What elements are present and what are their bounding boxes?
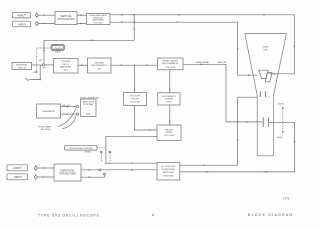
horizontal deflection plate right	[267, 118, 269, 127]
wire holdoff circuit to miller runup	[135, 106, 158, 131]
svg-text:EXT: EXT	[39, 60, 44, 62]
callout curve to upper cal terminal	[58, 108, 76, 126]
wire calibrator upper output	[61, 106, 77, 108]
svg-text:SW25: SW25	[55, 52, 61, 54]
svg-text:MULTIVIBRATOR: MULTIVIBRATOR	[162, 62, 178, 65]
node: internal trigger pickoff on lower line	[133, 21, 135, 23]
wire vertical amplifier upper output to right CRT plate	[110, 14, 295, 75]
block: horizontal display positions	[81, 99, 97, 117]
horizontal display rounded label box	[65, 145, 98, 153]
mechanical linkage dashed to display switch wipers	[97, 147, 105, 149]
label CRT	[262, 47, 269, 52]
horizontal deflection plate left	[262, 118, 264, 127]
trigger source rounded label box	[51, 45, 65, 54]
svg-text:+INPUT: +INPUT	[13, 166, 23, 170]
wire +input to vertical attenuators	[38, 14, 55, 16]
svg-text:DIODES: DIODES	[165, 99, 174, 101]
block: miller runup circuit	[157, 125, 181, 141]
wire trigger multivibrator to sweep gating multivibrator	[111, 64, 158, 66]
svg-text:V135 V145: V135 V145	[165, 67, 176, 69]
wire horizontal amp upper output to left horizontal plate	[180, 97, 262, 166]
+INPUT horizontal connector label box	[7, 165, 28, 171]
svg-text:SW340: SW340	[85, 152, 92, 154]
svg-text:V45: V45	[97, 68, 102, 70]
svg-text:HOLDOFF: HOLDOFF	[130, 96, 141, 98]
wire +input to horizontal attenuators	[37, 167, 54, 169]
svg-text:AMPLIFIER: AMPLIFIER	[60, 65, 71, 68]
wire disconnect diodes to miller runup	[169, 105, 171, 125]
svg-text:+INPUT: +INPUT	[17, 13, 27, 17]
node: CRT base on lower horizontal wire	[264, 171, 268, 172]
svg-text:CIRCUIT: CIRCUIT	[131, 98, 140, 100]
block: sweep gating multivibrator	[158, 58, 184, 70]
horizontal -input terminal	[35, 174, 38, 180]
svg-text:5mV 2MC: 5mV 2MC	[94, 22, 104, 24]
svg-text:TYPE 503 OSCILLOSCOPE: TYPE 503 OSCILLOSCOPE	[38, 213, 100, 217]
cal out terminal upper	[77, 106, 79, 108]
mechanical linkage dashed from source switch	[36, 48, 51, 74]
wire external trigger to switch contact	[32, 64, 43, 66]
wire sweep gating to disconnect diodes	[169, 70, 171, 93]
svg-text:V135 V145: V135 V145	[130, 101, 141, 103]
block: high gain wide band vertical amplifier	[87, 13, 111, 24]
line trigger sine symbol and wire	[25, 65, 41, 80]
svg-text:DISCONNECT: DISCONNECT	[162, 96, 176, 98]
svg-text:TRIGGER: TRIGGER	[94, 62, 104, 64]
svg-text:HORIZONTAL: HORIZONTAL	[60, 169, 75, 172]
svg-text:AMPLIFIER: AMPLIFIER	[163, 171, 174, 174]
vertical deflection plate right	[265, 73, 272, 82]
svg-text:+3000V: +3000V	[277, 103, 284, 105]
svg-text:−3000V: −3000V	[276, 137, 283, 139]
wire switch to trigger input amplifier	[45, 64, 54, 66]
wire junction to CRT neck electrode stub	[238, 96, 258, 98]
svg-text:+GATE SIGNAL: +GATE SIGNAL	[195, 61, 210, 64]
svg-text:EXTERNAL: EXTERNAL	[16, 64, 28, 67]
wire attenuator to vertical amplifier (lower)	[77, 23, 87, 25]
svg-text:CRT: CRT	[263, 50, 268, 52]
horizontal +input terminal	[35, 165, 38, 171]
svg-text:RUNUP: RUNUP	[165, 132, 173, 134]
svg-text:INT: INT	[43, 68, 47, 70]
block: vertical attenuators	[55, 12, 77, 25]
svg-text:TRIG. IN: TRIG. IN	[18, 67, 27, 69]
block: horizontal attenuators	[54, 164, 81, 181]
vertical plate bar right in neck	[265, 91, 267, 97]
wire horizontal amp lower output to right horizontal plate	[180, 122, 296, 173]
svg-text:MULTIVIBRATOR: MULTIVIBRATOR	[91, 64, 107, 67]
svg-text:HORIZONTAL: HORIZONTAL	[162, 168, 176, 171]
block: calibrator	[37, 104, 61, 118]
svg-text:LINE: LINE	[86, 114, 91, 116]
svg-text:HORIZONTAL DISPLAY: HORIZONTAL DISPLAY	[69, 147, 93, 150]
block: horizontal amplifier	[157, 163, 180, 181]
callout curve to lower cal terminal	[63, 116, 77, 129]
display switch wiper contact 2	[109, 151, 111, 162]
svg-text:SAWTOOTH: SAWTOOTH	[83, 100, 94, 103]
svg-text:AMPLIFIER: AMPLIFIER	[93, 19, 104, 22]
cal out terminal lower	[77, 113, 79, 115]
node: holdoff tap on trigger line	[134, 64, 136, 66]
wire calibrator lower output	[61, 113, 77, 115]
vertical +input terminal	[36, 12, 39, 18]
svg-text:−INPUT: −INPUT	[17, 22, 27, 26]
wire sawtooth from miller runup to display switch	[105, 136, 157, 164]
svg-text:ATTENUATORS: ATTENUATORS	[59, 173, 76, 176]
wire vertical amplifier lower output to left CRT plate	[110, 21, 257, 76]
vertical plate bar left in neck	[259, 91, 261, 97]
svg-text:V384 V394: V384 V394	[163, 175, 174, 177]
svg-text:1773 ⁻: 1773 ⁻	[283, 197, 291, 201]
vertical deflection plate left	[259, 70, 268, 78]
wire attenuator to vertical amplifier (upper)	[77, 14, 87, 16]
node: junction sweep line and plate line	[237, 121, 239, 123]
label front panel jacks	[39, 125, 52, 131]
trigger source switch contact	[42, 64, 44, 66]
wire trigger line down to holdoff circuit	[134, 65, 136, 92]
wire -input to horizontal attenuators	[37, 176, 54, 178]
wire attenuator upper output through switch to horizontal amplifier	[81, 169, 157, 171]
svg-text:SOURCE: SOURCE	[54, 48, 63, 50]
wire -input to vertical attenuators	[38, 23, 55, 25]
svg-text:LINE: LINE	[33, 72, 38, 74]
svg-text:FRONT PANEL: FRONT PANEL	[39, 125, 52, 128]
svg-text:SAW CRT: SAW CRT	[218, 61, 228, 64]
svg-text:−INPUT: −INPUT	[13, 175, 23, 179]
high voltage dashed span	[282, 106, 284, 133]
svg-text:MILLER: MILLER	[165, 129, 173, 131]
svg-text:CALIBRATOR: CALIBRATOR	[42, 110, 56, 113]
wire internal trigger down and left to source switch	[43, 15, 135, 64]
svg-text:ATTENUATORS: ATTENUATORS	[57, 18, 75, 21]
block: trigger multivibrator	[88, 58, 112, 73]
-INPUT vertical connector label box	[13, 21, 31, 27]
vertical -input terminal	[36, 21, 39, 27]
svg-text:DC COUPLED: DC COUPLED	[162, 166, 176, 168]
block: holdoff circuit	[124, 93, 147, 106]
svg-text:CAL JACKS: CAL JACKS	[41, 128, 52, 131]
svg-text:EXTERNAL: EXTERNAL	[83, 103, 93, 106]
svg-text:T5030: T5030	[262, 47, 269, 49]
block: external trigger input	[12, 62, 32, 69]
-INPUT horizontal connector label box	[7, 174, 28, 180]
svg-text:V152: V152	[166, 101, 172, 103]
wire trigger input amp to trigger multivibrator	[78, 64, 88, 66]
node: internal trigger pickoff on upper line	[133, 14, 135, 16]
block: disconnect diodes	[158, 93, 180, 105]
wire attenuator lower output to switch contact	[81, 173, 106, 178]
svg-text:A: A	[152, 213, 155, 217]
CRT funnel and neck outline	[245, 34, 287, 156]
display switch wiper contact 1	[100, 151, 102, 162]
block: trigger input amplifier	[54, 58, 79, 73]
+INPUT vertical connector label box	[13, 12, 31, 18]
svg-text:BLOCK DIAGRAM: BLOCK DIAGRAM	[248, 213, 294, 217]
svg-text:V24: V24	[64, 70, 69, 72]
wire sweep gate output down to CRT plate line	[183, 64, 238, 122]
svg-text:V161 V183: V161 V183	[164, 135, 175, 137]
